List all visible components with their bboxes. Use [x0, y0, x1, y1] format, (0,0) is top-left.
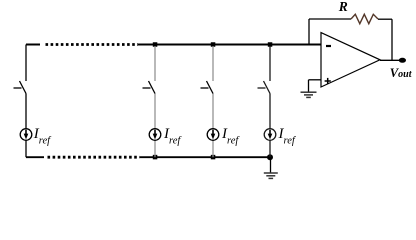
- svg-text:Vout: Vout: [390, 66, 413, 80]
- svg-text:R: R: [338, 0, 348, 14]
